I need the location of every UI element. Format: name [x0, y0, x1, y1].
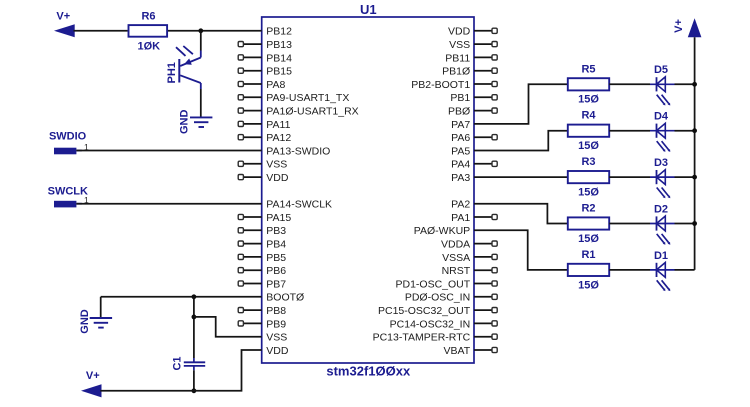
U1 right pin PD0-OSC_IN [474, 296, 492, 298]
svg-text:PB4: PB4 [266, 239, 286, 251]
svg-text:R1: R1 [581, 249, 595, 261]
svg-text:PB1: PB1 [450, 92, 470, 104]
wire bottom V+ rail to VDD [100, 350, 261, 391]
svg-text:PA2: PA2 [451, 199, 470, 211]
transistor PH1 (phototransistor) [179, 51, 201, 90]
power V+ (bottom left) [81, 384, 102, 397]
U1 left pin PA10-USART1_RX [243, 110, 261, 112]
svg-text:D2: D2 [654, 203, 668, 215]
svg-text:PDØ-OSC_IN: PDØ-OSC_IN [405, 292, 470, 304]
wire PA2 to R2 [474, 204, 568, 224]
svg-text:PB13: PB13 [266, 39, 292, 51]
U1 right pin VBAT [474, 349, 492, 351]
svg-text:PB1Ø: PB1Ø [442, 66, 470, 78]
svg-text:PC15-OSC32_OUT: PC15-OSC32_OUT [378, 305, 471, 317]
resistor R4 [568, 125, 609, 137]
svg-text:PA3: PA3 [451, 172, 470, 184]
connector SWDIO [54, 148, 76, 155]
U1 right pin PB2-BOOT1 [474, 83, 492, 85]
svg-text:PBØ: PBØ [448, 106, 470, 118]
svg-text:R5: R5 [581, 63, 595, 75]
wire D3 to V+ rail [675, 176, 695, 178]
svg-text:D3: D3 [654, 157, 668, 169]
svg-text:PB5: PB5 [266, 252, 286, 264]
wire D2 to V+ rail [675, 223, 695, 225]
U1 right pin VDD [474, 30, 492, 32]
U1 left pin PB5 [243, 256, 261, 258]
resistor R2 [568, 217, 609, 229]
resistor R5 [568, 78, 609, 90]
wire R2 to D2 [609, 223, 650, 225]
svg-text:GND: GND [79, 309, 91, 334]
svg-text:VSS: VSS [449, 39, 470, 51]
svg-text:PD1-OSC_OUT: PD1-OSC_OUT [396, 278, 471, 290]
svg-text:PA12: PA12 [266, 132, 291, 144]
svg-text:PH1: PH1 [166, 62, 178, 83]
U1 left pin PA15 [243, 216, 261, 218]
node junction R6/PH1/PB12 [198, 28, 203, 33]
svg-text:R2: R2 [581, 203, 595, 215]
svg-text:PB7: PB7 [266, 278, 286, 290]
wire PH1 emitter to GND [200, 89, 202, 117]
wire C1 to bottom rail [193, 370, 195, 391]
svg-text:PB11: PB11 [445, 52, 470, 64]
svg-text:15Ø: 15Ø [578, 187, 599, 199]
node junction V+ rail y=131 [692, 128, 697, 133]
svg-text:15Ø: 15Ø [578, 279, 599, 291]
node junction V+ rail y=177 [692, 175, 697, 180]
LED D2 [650, 223, 675, 225]
wire R3 to D3 [609, 176, 650, 178]
node junction V+ rail y=224 [692, 221, 697, 226]
svg-text:PAØ-WKUP: PAØ-WKUP [414, 225, 470, 237]
node junction bottom V+ rail [192, 388, 197, 393]
ground GND (PH1 emitter) [190, 117, 212, 127]
power V+ (top right) [688, 18, 702, 37]
U1 right pin VSSA [474, 256, 492, 258]
node junction BOOT0/C1 [192, 294, 197, 299]
power V+ (top left) [54, 24, 75, 37]
U1 right pin PB10 [474, 70, 492, 72]
svg-text:PA4: PA4 [451, 159, 470, 171]
wire junction to PH1 collector [200, 31, 202, 51]
wire D1 to V+ rail [675, 269, 695, 271]
wire PA5 to R4 [474, 131, 568, 151]
D5 emission arrows [657, 95, 664, 104]
D4 emission arrows [657, 141, 664, 150]
svg-text:1ØK: 1ØK [137, 40, 160, 52]
svg-text:PA1: PA1 [451, 212, 470, 224]
U1 left pin VDD [243, 176, 261, 178]
wire R6 to PB12 [168, 30, 262, 32]
wire V+ to R6 [74, 30, 128, 32]
U1 left pin PB13 [243, 43, 261, 45]
svg-text:GND: GND [178, 110, 190, 135]
svg-text:PB15: PB15 [266, 66, 292, 78]
node junction VSS branch [192, 315, 197, 320]
svg-text:VDD: VDD [266, 172, 289, 184]
wire D5 to V+ rail [675, 83, 695, 85]
LED D4 [650, 130, 675, 132]
ground GND (BOOT0 net) [100, 297, 102, 318]
U1 left pin VSS [243, 163, 261, 165]
svg-text:15Ø: 15Ø [578, 140, 599, 152]
svg-text:VDD: VDD [448, 26, 471, 38]
D2 emission arrows [657, 234, 664, 243]
svg-text:V+: V+ [673, 19, 685, 33]
wire VSS branch [194, 317, 262, 337]
U1 left pin PB14 [243, 56, 261, 58]
U1 right pin PC14-OSC32_IN [474, 322, 492, 324]
svg-text:PB12: PB12 [266, 26, 292, 38]
U1 right pin PC15-OSC32_OUT [474, 309, 492, 311]
svg-text:PA15: PA15 [266, 212, 291, 224]
svg-text:U1: U1 [360, 2, 377, 17]
svg-text:VDD: VDD [266, 345, 289, 357]
wire PA7 to R5 [474, 84, 568, 124]
svg-text:PC14-OSC32_IN: PC14-OSC32_IN [390, 318, 471, 330]
wire V+ rail vertical [694, 37, 696, 270]
resistor R6 [129, 25, 168, 37]
U1 left pin PA12 [243, 136, 261, 138]
svg-text:V+: V+ [86, 370, 100, 382]
wire GND to BOOT0 [101, 296, 262, 298]
U1 right pin PA4 [474, 163, 492, 165]
U1 left pin PB9 [243, 322, 261, 324]
svg-text:NRST: NRST [442, 265, 471, 277]
svg-text:PB8: PB8 [266, 305, 286, 317]
svg-text:PA6: PA6 [451, 132, 470, 144]
svg-text:PB6: PB6 [266, 265, 286, 277]
svg-text:PA9-USART1_TX: PA9-USART1_TX [266, 92, 349, 104]
svg-text:PA14-SWCLK: PA14-SWCLK [266, 199, 332, 211]
svg-text:D5: D5 [654, 64, 668, 76]
U1 left pin PA9-USART1_TX [243, 96, 261, 98]
svg-text:stm32f1ØØxx: stm32f1ØØxx [326, 364, 411, 379]
svg-text:BOOTØ: BOOTØ [266, 292, 304, 304]
wire PA0 to R1 [474, 230, 568, 270]
wire D4 to V+ rail [675, 130, 695, 132]
svg-text:15Ø: 15Ø [578, 94, 599, 106]
svg-text:15Ø: 15Ø [578, 233, 599, 245]
wire BOOT0 node down to C1 [193, 297, 195, 358]
U1 right pin PB1 [474, 96, 492, 98]
svg-text:R4: R4 [581, 110, 596, 122]
U1 left pin PB4 [243, 243, 261, 245]
wire SWDIO to PA13 [76, 150, 261, 152]
U1 right pin PB11 [474, 56, 492, 58]
svg-text:VSS: VSS [266, 332, 287, 344]
U1 left pin PA8 [243, 83, 261, 85]
U1 left pin PB8 [243, 309, 261, 311]
svg-text:PB14: PB14 [266, 52, 292, 64]
U1 right pin VDDA [474, 243, 492, 245]
PH1 light arrows [176, 47, 186, 56]
U1 right pin PA6 [474, 136, 492, 138]
svg-text:R3: R3 [581, 156, 595, 168]
svg-text:D4: D4 [654, 111, 669, 123]
U1 left pin PB6 [243, 269, 261, 271]
resistor R3 [568, 171, 609, 183]
U1 left pin PB7 [243, 283, 261, 285]
svg-text:SWDIO: SWDIO [49, 130, 87, 142]
svg-text:PB9: PB9 [266, 318, 286, 330]
svg-text:PB2-BOOT1: PB2-BOOT1 [411, 79, 470, 91]
U1 right pin VSS [474, 43, 492, 45]
node junction V+ rail y=84 [692, 82, 697, 87]
wire PA3 to R3 [474, 176, 568, 178]
wire R5 to D5 [609, 83, 650, 85]
wire R1 to D1 [609, 269, 650, 271]
svg-text:PA13-SWDIO: PA13-SWDIO [266, 145, 330, 157]
svg-text:PA11: PA11 [266, 119, 290, 131]
svg-text:VBAT: VBAT [444, 345, 471, 357]
U1 left pin PB15 [243, 70, 261, 72]
PH1 arrow on upper lead [184, 59, 192, 65]
LED D3 [650, 176, 675, 178]
svg-text:PA5: PA5 [451, 145, 470, 157]
U1 left pin PB3 [243, 229, 261, 231]
LED D5 [650, 83, 675, 85]
D1 emission arrows [657, 280, 664, 289]
svg-text:PC13-TAMPER-RTC: PC13-TAMPER-RTC [373, 332, 471, 344]
connector SWCLK [54, 201, 76, 208]
U1 right pin PC13-TAMPER-RTC [474, 336, 492, 338]
U1 left pin PA11 [243, 123, 261, 125]
U1 right pin NRST [474, 269, 492, 271]
D3 emission arrows [657, 188, 664, 197]
svg-text:R6: R6 [141, 10, 155, 22]
resistor R1 [568, 264, 609, 276]
svg-text:SWCLK: SWCLK [48, 185, 88, 197]
svg-text:PB3: PB3 [266, 225, 286, 237]
op-amp/IC U1 stm32f100xx body [262, 17, 474, 363]
LED D1 [650, 269, 675, 271]
svg-text:C1: C1 [171, 356, 183, 370]
U1 right pin PB0 [474, 110, 492, 112]
svg-text:PA7: PA7 [451, 119, 470, 131]
U1 right pin PA1 [474, 216, 492, 218]
svg-text:PA8: PA8 [266, 79, 285, 91]
wire SWCLK to PA14 [76, 203, 261, 205]
U1 right pin PD1-OSC_OUT [474, 283, 492, 285]
svg-text:PA1Ø-USART1_RX: PA1Ø-USART1_RX [266, 106, 358, 118]
capacitor C1 [193, 358, 195, 362]
svg-text:D1: D1 [654, 250, 668, 262]
svg-text:VSSA: VSSA [442, 252, 470, 264]
svg-text:V+: V+ [56, 11, 70, 23]
wire R4 to D4 [609, 130, 650, 132]
svg-text:VDDA: VDDA [441, 239, 470, 251]
svg-text:VSS: VSS [266, 159, 287, 171]
